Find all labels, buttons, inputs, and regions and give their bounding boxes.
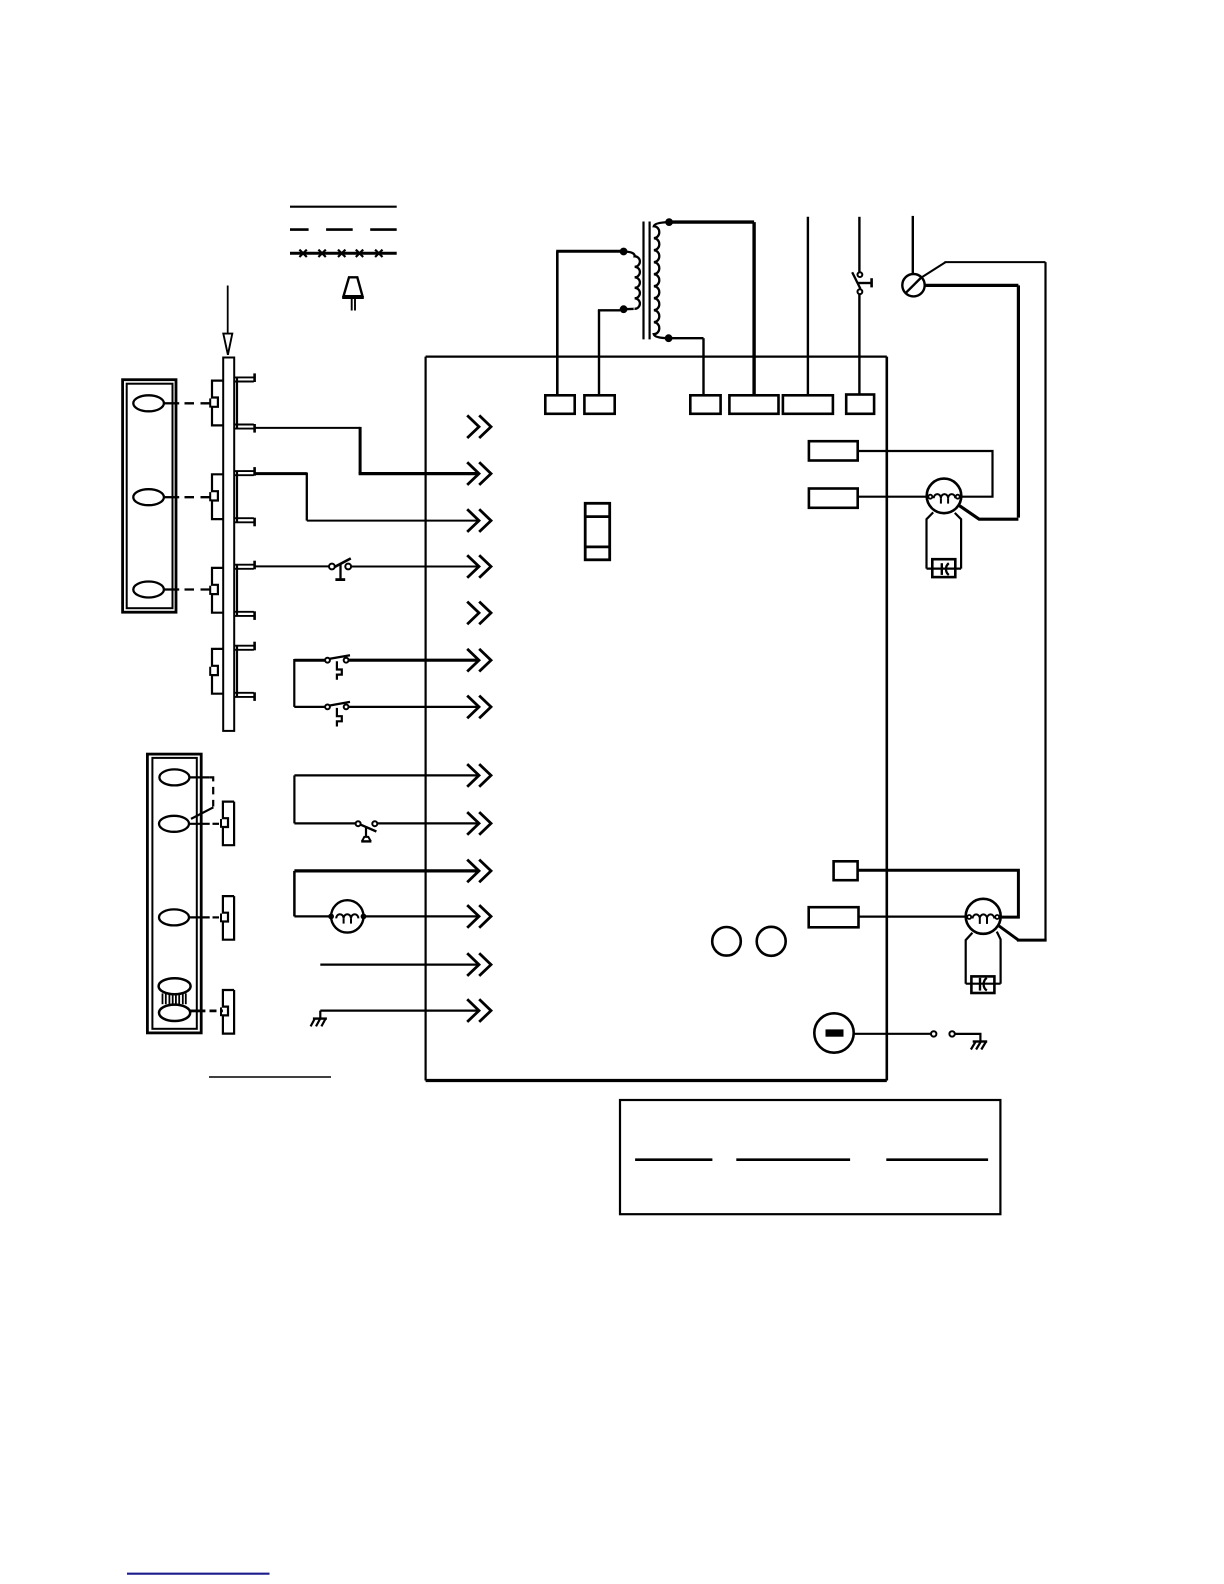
latch1 dashed link	[210, 777, 214, 806]
underline below lower bank	[209, 1076, 331, 1078]
connector arrow J7	[467, 696, 491, 719]
upper latch stub 3	[164, 588, 179, 590]
wire row6 left (thick)	[294, 659, 325, 662]
M2 left leg	[966, 933, 973, 984]
row13 ground drop	[319, 1011, 321, 1019]
connector tab CN2	[584, 395, 614, 414]
terminal rect B2	[809, 907, 859, 927]
connector arrow J2	[467, 462, 491, 485]
relay coil K1	[712, 927, 741, 956]
terminal square B1	[834, 861, 858, 880]
transformer secondary dot bottom	[665, 335, 672, 342]
turntable thin diagonal	[922, 262, 946, 277]
external stub to CN5	[807, 217, 809, 395]
legend crossed-line (shielded wiring)	[290, 250, 397, 257]
wire S1 to corner	[255, 427, 360, 429]
connector arrow J1	[467, 415, 491, 438]
terminal rect A1	[809, 441, 858, 460]
control board box right edge	[885, 357, 888, 1081]
switch SW4 pedestal	[339, 565, 341, 580]
TCO contact a	[931, 1031, 936, 1036]
chassis ground (TCO)	[973, 1040, 988, 1042]
wire row2 thick to J2	[359, 472, 479, 475]
lower latch ellipse 1	[159, 769, 189, 785]
thick feed vertical	[1017, 285, 1020, 517]
M2 terminal a	[967, 915, 971, 919]
upper latch stub 2	[164, 496, 179, 498]
M2 terminal b	[995, 915, 999, 919]
M1 capacitor lead	[927, 567, 962, 569]
control board box bottom edge	[426, 1079, 887, 1082]
wire CN-a to M1 right (loop)	[858, 451, 993, 497]
upper latch dashed link 3	[185, 588, 211, 590]
relay coil K2	[757, 927, 786, 956]
wire S2 arm stub (thick)	[255, 472, 306, 475]
switch SW5 contact a	[325, 658, 330, 663]
wire row6 to J6 (thick)	[348, 659, 478, 662]
upper door frame inner	[127, 384, 173, 609]
wire row8 to J8	[294, 774, 478, 776]
upper door frame outer	[123, 380, 176, 613]
buzzer stub	[190, 1010, 205, 1013]
start switch drop to CN6	[858, 294, 860, 395]
lower latch stub 1	[189, 776, 209, 778]
M1 capacitor plate	[941, 563, 943, 575]
M1 capacitor box	[932, 559, 955, 577]
transformer primary winding	[624, 252, 640, 310]
interlock switch S2 (body+bracket)	[210, 467, 255, 526]
lower switch body B2	[223, 896, 234, 940]
M1 capacitor curved plate	[946, 563, 949, 575]
wire loop vertical rows8-9	[293, 775, 295, 823]
start switch contact a	[858, 272, 863, 277]
start switch contact b	[858, 289, 863, 294]
interlock switch S4 (body+bracket)	[210, 642, 255, 701]
M2 capacitor lead	[966, 983, 1001, 985]
M2 capacitor curved plate	[984, 978, 987, 991]
connector arrow J9	[467, 812, 491, 835]
fuse F1 body	[585, 503, 610, 560]
M2 capacitor plate	[979, 978, 981, 991]
footer underline	[127, 1573, 270, 1575]
wire row4 to J4	[351, 566, 478, 568]
switch SW5 contact b	[344, 658, 349, 663]
switch SW7 blade	[361, 825, 377, 832]
secondary wire top (thick)	[669, 220, 754, 223]
connector arrow J5	[467, 602, 491, 625]
interlock switch S3 (body+bracket)	[210, 561, 255, 620]
connector tab CN6	[846, 395, 874, 414]
switch SW6 contact a	[325, 705, 330, 710]
TCO contact b	[949, 1031, 954, 1036]
switch SW6 actuator	[337, 708, 342, 727]
legend box dash 1	[635, 1158, 712, 1161]
wire row9 to J9	[377, 822, 478, 824]
connector arrow J8	[467, 764, 491, 787]
M3 coil	[336, 914, 358, 918]
switch SW6 contact b	[344, 705, 349, 710]
upper latch dashed link 2	[185, 496, 211, 498]
fuse F1 cap line top	[585, 515, 610, 518]
long wire horizontal top	[945, 261, 1046, 263]
connector tab CN5	[783, 395, 833, 414]
connector arrow J13	[467, 999, 491, 1022]
switch SW5 actuator	[337, 661, 342, 680]
stirrer motor M2 housing	[966, 899, 1001, 934]
connector arrow J10	[467, 860, 491, 883]
primary wire bottom drop to CN2	[598, 310, 600, 395]
switch SW4 contact a	[329, 564, 335, 570]
switch SW4 blade	[334, 558, 351, 567]
legend solid-line (chassis wiring)	[290, 206, 397, 208]
wire row10 to J10 (thick)	[294, 869, 478, 872]
control board box left edge	[425, 357, 427, 1081]
stub wire above start switch	[858, 217, 860, 272]
M3 terminal b	[362, 914, 366, 918]
lower latch stub 3	[189, 916, 210, 918]
upper door latch ellipse 1	[133, 395, 164, 411]
M1 feed diagonal (thick)	[959, 505, 1019, 519]
connector arrow J4	[467, 555, 491, 578]
chassis ground (row13)	[313, 1017, 327, 1019]
primary wire bottom	[598, 309, 620, 311]
wire row11 left	[294, 915, 331, 917]
wire rect to M2 left	[859, 915, 968, 917]
wire row12 to J12	[320, 963, 478, 965]
wire corner down (thick)	[359, 427, 362, 474]
lower door frame inner	[152, 758, 196, 1029]
transformer primary dot top	[620, 248, 627, 255]
wire square to M2 (thick)	[858, 870, 1019, 917]
lower latch ellipse 2	[159, 816, 189, 832]
long wire bottom horizontal (thick)	[1017, 939, 1047, 942]
start switch actuator	[858, 282, 871, 284]
legend box dash 3	[886, 1158, 988, 1161]
switch SW7 pedestal	[365, 826, 367, 837]
M1 coil	[934, 494, 956, 498]
wire row13 to J13	[320, 1009, 478, 1011]
circle-slash stroke	[905, 277, 921, 293]
upper door latch ellipse 3	[133, 582, 164, 598]
buzzer bottom ellipse	[159, 1005, 190, 1021]
interlock slide bar	[223, 358, 234, 731]
oven lamp/motor M3 housing	[331, 900, 363, 932]
wire S3 arm to switch	[255, 565, 329, 567]
switch SW4 contact b	[345, 564, 351, 570]
fuse F1 cap line bottom	[585, 546, 610, 549]
start switch blade	[852, 272, 860, 289]
lower latch ellipse 3	[159, 909, 189, 925]
transformer core	[642, 222, 644, 340]
latch1 blade	[191, 807, 213, 819]
wire row11 to J11	[366, 915, 479, 917]
wire contact to ground	[955, 1034, 981, 1042]
connector arrow J3	[467, 509, 491, 532]
M1 right leg	[955, 513, 961, 569]
lower door frame outer	[147, 754, 201, 1033]
legend dashed-line (mechanical link)	[290, 228, 397, 231]
primary wire top	[556, 250, 620, 253]
wire CN-b to M1 left	[858, 496, 929, 498]
thermal cutout body	[814, 1013, 853, 1052]
thick feed horizontal from turntable	[925, 284, 1019, 287]
connector tab CN1	[545, 395, 574, 414]
control board box top edge	[426, 356, 887, 358]
latch2 dashed link	[213, 823, 223, 825]
wire row7 left	[294, 706, 325, 708]
connector arrow J12	[467, 953, 491, 976]
M3 terminal a	[329, 914, 333, 918]
transformer primary dot bottom	[620, 306, 627, 313]
secondary drop to CN4 (thick)	[752, 222, 755, 395]
secondary wire bottom	[669, 337, 704, 339]
wire TCO to contact	[854, 1033, 931, 1035]
wire row9 left	[294, 822, 355, 824]
thermal cutout contact bar	[826, 1030, 843, 1036]
switch SW6 blade	[330, 702, 350, 706]
upper door latch ellipse 2	[133, 489, 164, 505]
wire loop vertical rows6-7	[293, 659, 295, 707]
M1 left leg	[927, 512, 934, 568]
fan motor M1 housing	[927, 479, 962, 514]
switch SW5 blade	[330, 655, 350, 659]
switch SW7 contact a	[356, 821, 361, 826]
primary wire top drop to CN1	[556, 251, 559, 395]
upper latch dashed link 1	[185, 402, 211, 404]
buzzer top ellipse	[159, 978, 191, 994]
latch3 dashed link	[213, 916, 223, 918]
connector tab CN4	[729, 395, 778, 414]
connector arrow J6	[467, 649, 491, 672]
interlock switch S1 (body+bracket)	[210, 373, 255, 432]
M2 capacitor box	[971, 976, 994, 993]
lower latch stub 2	[189, 823, 210, 825]
lower switch body B3	[223, 990, 234, 1034]
terminal rect A2	[809, 489, 858, 508]
transformer secondary dot top	[666, 219, 673, 226]
switch SW7 contact b	[372, 821, 377, 826]
legend plug symbol	[342, 277, 364, 310]
wire row3 to J3	[307, 520, 479, 522]
wire S2 corner down	[306, 473, 308, 521]
wire loop vertical rows10-11	[293, 871, 296, 917]
secondary drop to CN3	[702, 338, 704, 395]
long wire diagonal to M2	[998, 925, 1018, 940]
M1 terminal a	[928, 495, 932, 499]
lower switch body B1	[223, 802, 234, 846]
connector arrow J11	[467, 905, 491, 928]
transformer secondary winding	[654, 222, 669, 338]
door plunger arrow line	[227, 286, 229, 335]
legend box dash 2	[736, 1158, 850, 1161]
M2 right leg	[997, 932, 1001, 984]
latch4 dashed link	[210, 1010, 223, 1013]
interlock monitor stub	[912, 216, 914, 274]
buzzer hatching	[163, 993, 186, 1004]
M1 terminal b	[956, 495, 960, 499]
M2 coil	[973, 914, 995, 918]
long wire vertical right	[1044, 262, 1046, 940]
legend box	[620, 1100, 1000, 1214]
connector tab CN3	[690, 395, 720, 414]
wire row7 to J7	[348, 706, 478, 708]
turntable motor (circle-slash)	[902, 274, 924, 296]
upper latch stub 1	[164, 402, 179, 404]
door plunger arrowhead	[223, 334, 232, 355]
